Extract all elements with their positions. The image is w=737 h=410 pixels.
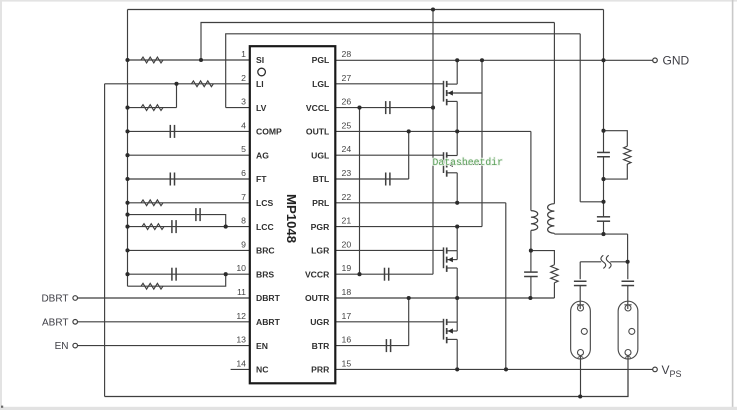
svg-text:LCC: LCC: [256, 222, 274, 232]
svg-text:PRR: PRR: [311, 365, 330, 375]
svg-text:22: 22: [342, 192, 352, 202]
svg-text:AG: AG: [256, 150, 269, 160]
svg-text:COMP: COMP: [256, 127, 282, 137]
svg-text:13: 13: [236, 335, 246, 345]
svg-text:18: 18: [342, 287, 352, 297]
svg-text:8: 8: [241, 216, 246, 226]
svg-text:20: 20: [342, 239, 352, 249]
svg-text:UGR: UGR: [310, 317, 330, 327]
svg-text:DBRT: DBRT: [256, 293, 281, 303]
svg-text:OUTL: OUTL: [306, 127, 329, 137]
svg-text:LGR: LGR: [311, 246, 330, 256]
svg-text:7: 7: [241, 192, 246, 202]
svg-text:GND: GND: [663, 54, 690, 68]
svg-text:BRS: BRS: [256, 269, 274, 279]
svg-text:9: 9: [241, 239, 246, 249]
svg-text:19: 19: [342, 263, 352, 273]
svg-text:2: 2: [241, 73, 246, 83]
svg-text:16: 16: [342, 335, 352, 345]
svg-text:NC: NC: [256, 365, 268, 375]
svg-text:5: 5: [241, 144, 246, 154]
svg-text:26: 26: [342, 97, 352, 107]
svg-text:14: 14: [236, 358, 246, 368]
svg-text:BTR: BTR: [312, 341, 330, 351]
svg-text:15: 15: [342, 358, 352, 368]
svg-text:PGL: PGL: [312, 55, 330, 65]
svg-text:12: 12: [236, 311, 246, 321]
svg-text:23: 23: [342, 168, 352, 178]
svg-text:LGL: LGL: [312, 79, 329, 89]
svg-text:DBRT: DBRT: [41, 294, 68, 305]
svg-text:PRL: PRL: [312, 198, 329, 208]
svg-text:VCCL: VCCL: [306, 103, 329, 113]
svg-text:ABRT: ABRT: [256, 317, 281, 327]
svg-text:LCS: LCS: [256, 198, 273, 208]
svg-text:4: 4: [241, 120, 246, 130]
svg-text:17: 17: [342, 311, 352, 321]
svg-text:BRC: BRC: [256, 246, 275, 256]
svg-text:24: 24: [342, 144, 352, 154]
svg-text:EN: EN: [256, 341, 268, 351]
svg-text:VCCR: VCCR: [305, 269, 330, 279]
svg-text:6: 6: [241, 168, 246, 178]
svg-text:LV: LV: [256, 103, 267, 113]
svg-text:SI: SI: [256, 55, 264, 65]
svg-text:MP1048: MP1048: [284, 194, 299, 243]
svg-text:UGL: UGL: [311, 150, 329, 160]
svg-text:1: 1: [241, 49, 246, 59]
svg-text:27: 27: [342, 73, 352, 83]
svg-text:FT: FT: [256, 174, 267, 184]
svg-text:25: 25: [342, 120, 352, 130]
svg-text:ABRT: ABRT: [42, 317, 69, 328]
svg-text:OUTR: OUTR: [305, 293, 330, 303]
svg-text:Datasheetdir: Datasheetdir: [433, 157, 504, 168]
svg-text:LI: LI: [256, 79, 264, 89]
svg-text:28: 28: [342, 49, 352, 59]
svg-text:10: 10: [236, 263, 246, 273]
svg-text:PGR: PGR: [311, 222, 330, 232]
svg-text:BTL: BTL: [313, 174, 330, 184]
svg-text:EN: EN: [55, 341, 69, 352]
svg-text:11: 11: [237, 287, 246, 297]
svg-text:21: 21: [342, 216, 352, 226]
svg-text:3: 3: [241, 97, 246, 107]
